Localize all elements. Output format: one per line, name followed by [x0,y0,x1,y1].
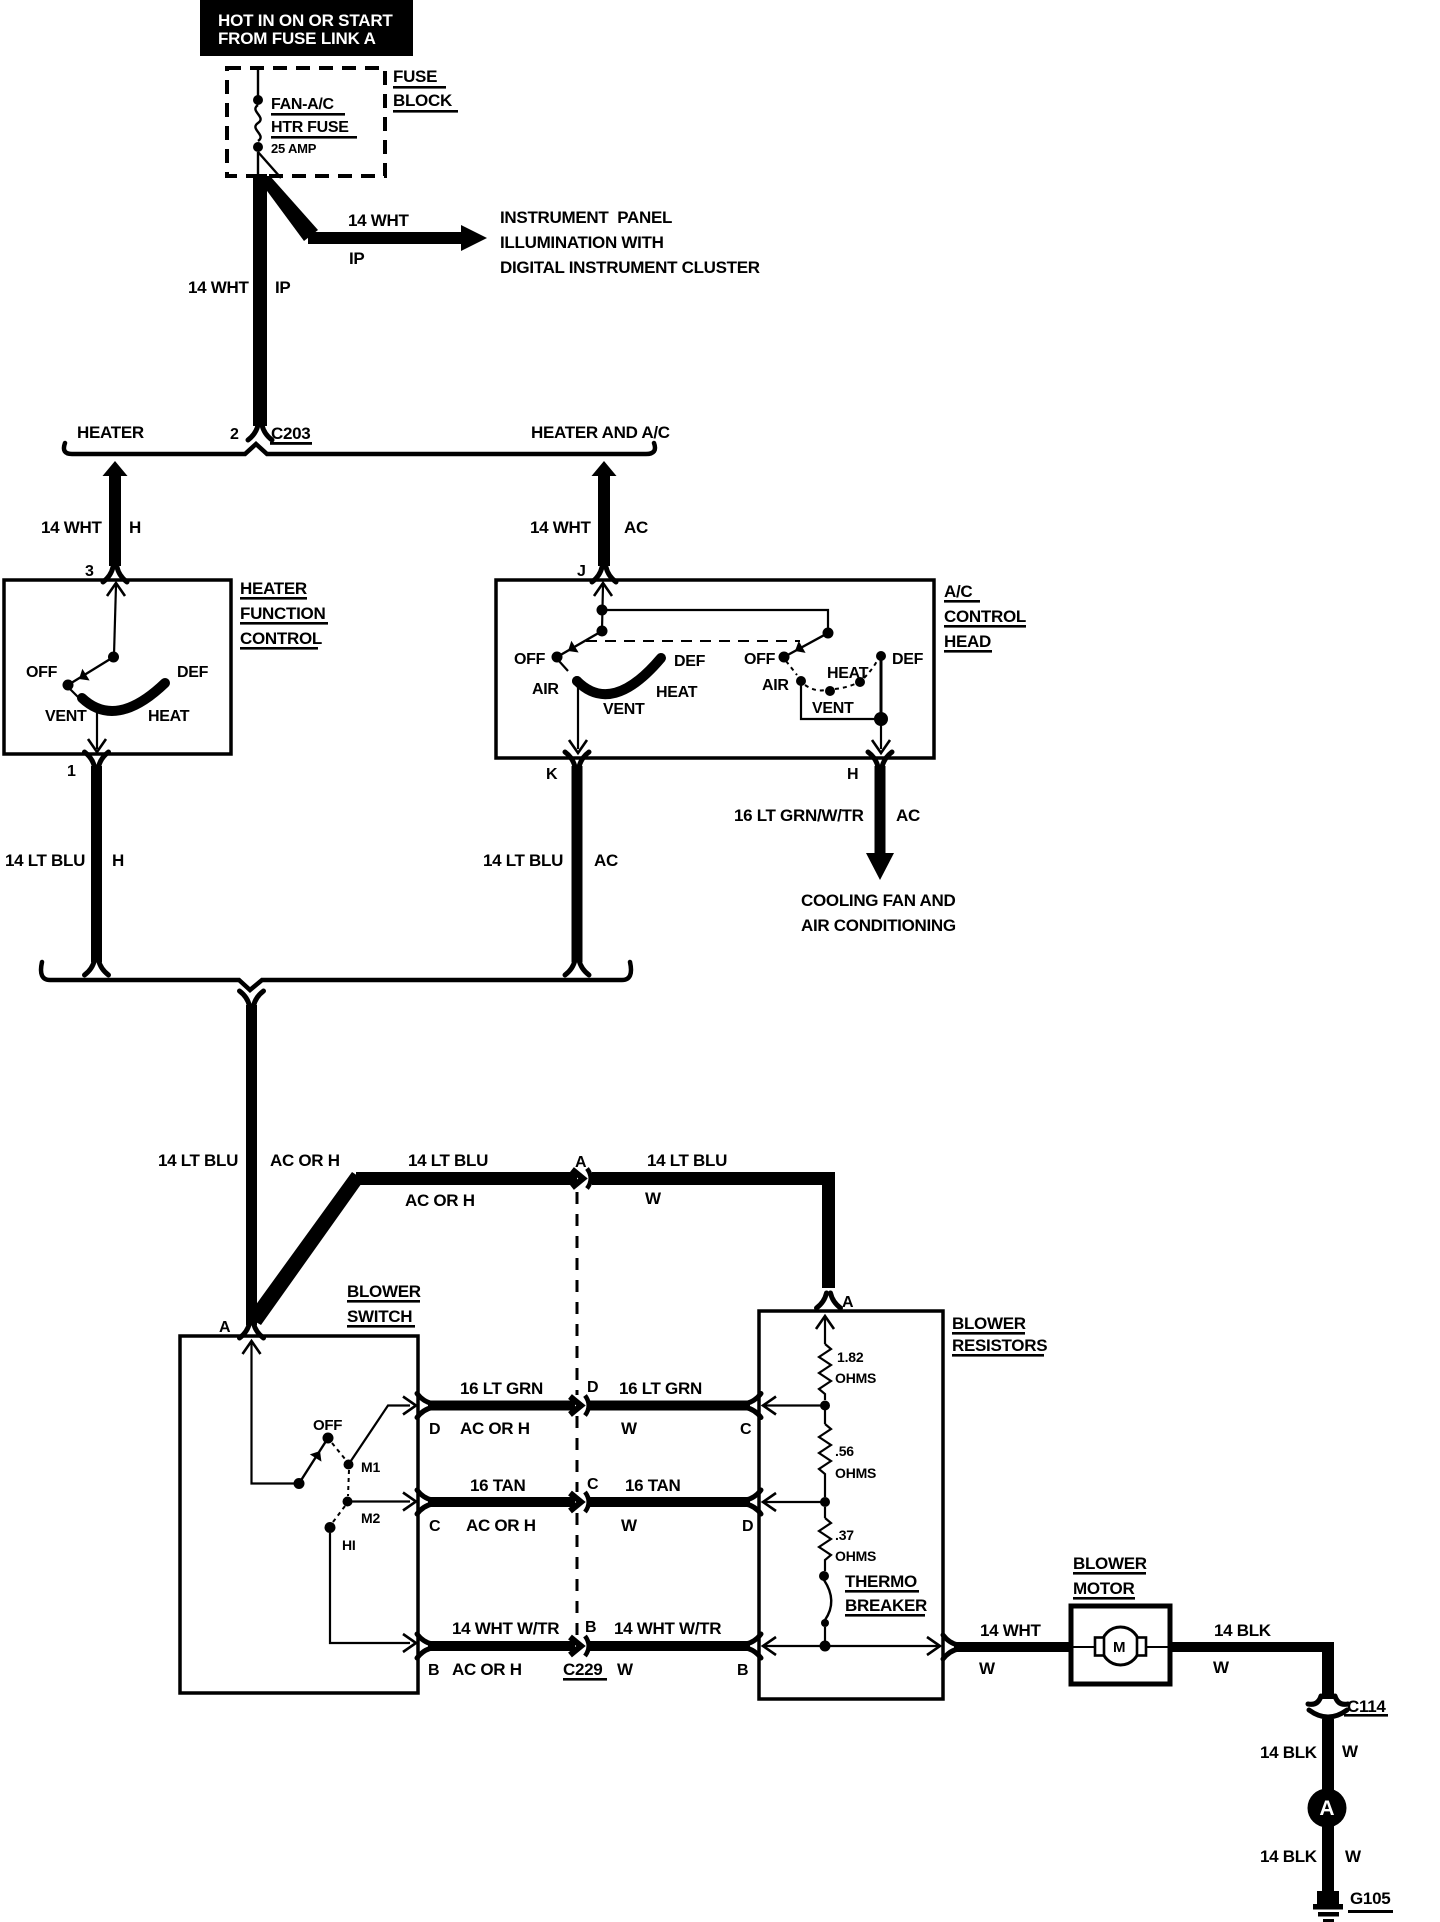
svg-text:C203: C203 [271,424,310,443]
svg-text:C229: C229 [563,1660,602,1679]
svg-text:16 TAN: 16 TAN [470,1476,526,1495]
svg-text:M: M [1113,1639,1125,1656]
blower resistors box [759,1311,943,1699]
svg-text:CONTROL: CONTROL [944,607,1026,626]
svg-text:AC OR H: AC OR H [460,1419,530,1438]
wire 14 WHT W/TR row with C229 [417,1619,761,1681]
svg-text:1.82: 1.82 [837,1349,864,1365]
svg-text:FAN-A/C: FAN-A/C [271,96,335,113]
svg-text:VENT: VENT [603,701,645,718]
svg-text:H: H [129,518,141,537]
svg-text:14 WHT: 14 WHT [41,518,102,537]
thermo breaker [819,1571,927,1641]
blower switch mechanism [243,1341,417,1652]
svg-text:14 BLK: 14 BLK [1214,1621,1272,1640]
tap D with arrow [763,1493,830,1511]
svg-text:2: 2 [230,426,239,443]
svg-text:DEF: DEF [892,651,924,668]
svg-text:IP: IP [275,278,290,297]
instrument panel destination text [500,208,760,277]
svg-text:W: W [1345,1847,1362,1866]
cooling fan destination text [801,891,956,935]
svg-text:HEAT: HEAT [148,708,190,725]
wire 14 WHT W to blower motor [943,1621,1071,1678]
svg-text:HEAD: HEAD [944,632,991,651]
svg-text:VENT: VENT [812,700,854,717]
svg-text:W: W [621,1419,638,1438]
svg-text:OHMS: OHMS [835,1465,876,1481]
heater rotary switch [26,583,209,752]
resistor .56 ohms [819,1410,876,1497]
svg-text:K: K [546,766,558,783]
svg-text:C: C [429,1518,441,1535]
heater function control box [4,580,231,754]
pin H wire 16 LT GRN/W/TR AC [734,752,920,880]
svg-text:HOT IN ON OR START: HOT IN ON OR START [218,11,393,30]
svg-text:W: W [1213,1658,1230,1677]
svg-text:BLOWER: BLOWER [1073,1554,1147,1573]
connector C203 pin 2 [230,424,312,445]
svg-text:AC: AC [594,851,618,870]
svg-text:AIR CONDITIONING: AIR CONDITIONING [801,916,956,935]
resistor .37 ohms [819,1507,876,1571]
svg-text:16 LT GRN/W/TR: 16 LT GRN/W/TR [734,806,864,825]
svg-text:A: A [575,1154,587,1171]
svg-text:.37: .37 [835,1527,854,1543]
pin 1 wire 14 LT BLU H [5,752,124,975]
wire branch 14 WHT IP to instrument panel [256,176,487,268]
svg-text:HEATER: HEATER [77,423,144,442]
svg-text:W: W [621,1516,638,1535]
svg-text:BLOCK: BLOCK [393,91,453,110]
svg-text:COOLING FAN AND: COOLING FAN AND [801,891,955,910]
svg-text:G105: G105 [1350,1889,1390,1908]
motor box [1071,1606,1170,1684]
svg-text:14 BLK: 14 BLK [1260,1743,1318,1762]
svg-text:RESISTORS: RESISTORS [952,1336,1047,1355]
svg-text:14 LT BLU: 14 LT BLU [5,851,85,870]
fuse FAN-A/C HTR FUSE 25A [253,68,357,178]
dashed harness divider line [576,1192,579,1636]
svg-text:14 BLK: 14 BLK [1260,1847,1318,1866]
svg-text:HEAT: HEAT [656,684,698,701]
svg-text:A: A [842,1294,854,1311]
svg-text:A/C: A/C [944,582,972,601]
svg-text:IP: IP [349,249,364,268]
svg-text:ILLUMINATION WITH: ILLUMINATION WITH [500,233,664,252]
svg-text:D: D [587,1379,598,1396]
svg-text:DIGITAL INSTRUMENT CLUSTER: DIGITAL INSTRUMENT CLUSTER [500,258,760,277]
svg-text:14 LT BLU: 14 LT BLU [483,851,563,870]
wire 16 LT GRN row [417,1379,761,1438]
svg-text:14 WHT W/TR: 14 WHT W/TR [614,1619,721,1638]
svg-text:B: B [428,1662,439,1679]
svg-text:HTR FUSE: HTR FUSE [271,119,349,136]
svg-text:AC: AC [896,806,920,825]
svg-text:AC OR H: AC OR H [270,1151,340,1170]
svg-text:B: B [585,1619,596,1636]
svg-text:D: D [742,1518,753,1535]
svg-text:14 LT BLU: 14 LT BLU [647,1151,727,1170]
svg-text:OFF: OFF [744,651,776,668]
svg-text:OFF: OFF [514,651,546,668]
svg-text:AC OR H: AC OR H [466,1516,536,1535]
svg-text:VENT: VENT [45,708,87,725]
svg-text:14 WHT: 14 WHT [530,518,591,537]
svg-text:D: D [429,1421,440,1438]
svg-text:BLOWER: BLOWER [952,1314,1026,1333]
wire 14 WHT AC [530,461,648,582]
svg-text:14 WHT W/TR: 14 WHT W/TR [452,1619,559,1638]
svg-text:OFF: OFF [26,664,58,681]
svg-text:14 LT BLU: 14 LT BLU [158,1151,238,1170]
svg-text:H: H [112,851,124,870]
svg-text:OHMS: OHMS [835,1370,876,1386]
svg-text:HEAT: HEAT [827,665,869,682]
svg-text:14 WHT: 14 WHT [980,1621,1041,1640]
svg-text:AC OR H: AC OR H [452,1660,522,1679]
a/c control head box [496,580,934,758]
wire to ground [1322,1790,1334,1891]
splice bracket joining H and AC feeds [41,962,631,990]
wire 14 LT BLU AC OR H vertical [158,991,340,1338]
fuse block label [393,67,458,113]
svg-text:M1: M1 [361,1459,380,1475]
wire 14 BLK W to splice [1260,1719,1362,1866]
blower switch box [180,1336,418,1693]
svg-text:OHMS: OHMS [835,1548,876,1564]
svg-text:HEATER: HEATER [240,579,307,598]
svg-text:HI: HI [342,1537,356,1553]
svg-text:M2: M2 [361,1510,380,1526]
pin K wire 14 LT BLU AC [483,752,618,975]
svg-text:DEF: DEF [177,664,209,681]
wire 14 LT BLU W to resistors [592,1151,854,1311]
svg-text:16 TAN: 16 TAN [625,1476,681,1495]
svg-text:C: C [740,1421,752,1438]
svg-text:25 AMP: 25 AMP [271,141,317,156]
connector A inline [572,1154,591,1189]
svg-text:.56: .56 [835,1443,854,1459]
svg-text:14 WHT: 14 WHT [348,211,409,230]
svg-text:16 LT GRN: 16 LT GRN [460,1379,543,1398]
svg-text:FROM FUSE LINK A: FROM FUSE LINK A [218,29,376,48]
svg-text:BLOWER: BLOWER [347,1282,421,1301]
svg-text:J: J [577,563,586,580]
output bus with arrows both ends [763,1637,940,1655]
svg-text:BREAKER: BREAKER [845,1596,927,1615]
svg-text:14 WHT: 14 WHT [188,278,249,297]
svg-text:A: A [1319,1797,1334,1820]
svg-text:W: W [645,1189,662,1208]
svg-text:B: B [737,1662,748,1679]
splice A [1308,1789,1347,1828]
svg-text:OFF: OFF [313,1417,342,1434]
splice bracket under C203 [64,443,655,454]
connector C114 [1308,1696,1388,1717]
a/c right rotary switch [744,628,924,754]
svg-text:W: W [1342,1742,1359,1761]
wire 14 BLK W from motor [1170,1621,1334,1699]
svg-text:H: H [847,766,858,783]
svg-text:MOTOR: MOTOR [1073,1579,1134,1598]
svg-text:DEF: DEF [674,653,706,670]
svg-text:W: W [979,1659,996,1678]
svg-text:INSTRUMENT PANEL: INSTRUMENT PANEL [500,208,672,227]
motor symbol [1073,1627,1168,1665]
svg-text:FUSE: FUSE [393,67,437,86]
svg-text:AC OR H: AC OR H [405,1191,475,1210]
resistor 1.82 ohms [816,1316,876,1400]
hot-in-run header box [200,0,413,56]
a/c left rotary switch [514,583,828,753]
svg-text:1: 1 [67,763,76,780]
wire 14 WHT IP main vertical [188,174,290,440]
svg-text:AC: AC [624,518,648,537]
svg-text:SWITCH: SWITCH [347,1307,412,1326]
wire 14 WHT H [41,461,141,582]
fuse block dashed box [227,68,385,176]
wire 14 LT BLU horizontal to connector A [356,1151,577,1210]
svg-text:THERMO: THERMO [845,1572,917,1591]
svg-text:FUNCTION: FUNCTION [240,604,325,623]
svg-text:3: 3 [85,563,94,580]
svg-text:A: A [219,1319,231,1336]
svg-text:14 LT BLU: 14 LT BLU [408,1151,488,1170]
wire diagonal branch to blower resistors feed [247,1172,364,1325]
svg-text:16 LT GRN: 16 LT GRN [619,1379,702,1398]
svg-text:CONTROL: CONTROL [240,629,322,648]
svg-text:AIR: AIR [762,677,789,694]
tap C with arrow [763,1397,830,1415]
svg-text:C114: C114 [1347,1697,1386,1716]
ground G105 [1313,1889,1393,1922]
svg-text:W: W [617,1660,634,1679]
svg-text:C: C [587,1476,599,1493]
wire 16 TAN row [417,1476,761,1535]
svg-text:HEATER AND A/C: HEATER AND A/C [531,423,670,442]
svg-text:AIR: AIR [532,681,559,698]
